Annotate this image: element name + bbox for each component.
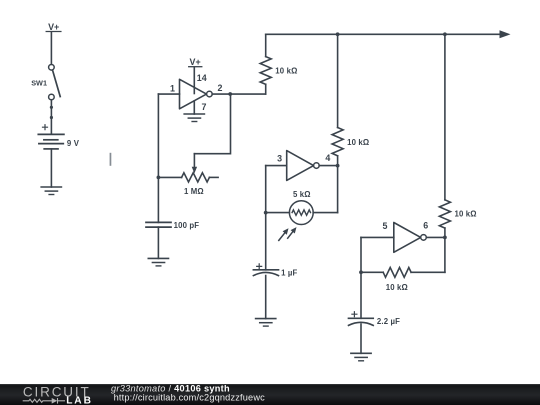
resistor R5 10 kΩ (right) bbox=[439, 34, 476, 237]
ground (U1 pin 7) bbox=[184, 114, 204, 122]
arrowhead output bbox=[500, 30, 511, 38]
ground (C2) bbox=[256, 319, 276, 327]
CircuitLab logo and credits bbox=[0, 384, 540, 405]
svg-text:100 pF: 100 pF bbox=[174, 221, 200, 230]
svg-text:1 MΩ: 1 MΩ bbox=[184, 187, 204, 196]
junction LDR left node bbox=[264, 211, 268, 215]
LDR arrow 1 bbox=[279, 228, 289, 240]
svg-text:4: 4 bbox=[325, 153, 330, 163]
svg-text:3: 3 bbox=[277, 154, 282, 164]
wire battery to ground bbox=[50, 149, 52, 187]
svg-text:14: 14 bbox=[197, 73, 207, 83]
wire U2 output bbox=[319, 165, 337, 167]
switch SW1 bbox=[31, 65, 60, 100]
logo schematic resistor-diode bbox=[23, 398, 65, 404]
junction U3 input node bbox=[359, 270, 363, 274]
junction bbox=[50, 116, 53, 119]
svg-text:6: 6 bbox=[423, 220, 428, 230]
wire U2 input vertical bbox=[265, 166, 267, 270]
svg-text:10 kΩ: 10 kΩ bbox=[347, 138, 369, 147]
wire V+ to switch bbox=[50, 32, 52, 64]
net label V+ (U1 pin 14) bbox=[189, 57, 202, 67]
wire C2 to ground bbox=[265, 276, 267, 319]
junction pot tap bbox=[157, 176, 161, 180]
net label V+ (battery branch) bbox=[46, 22, 61, 32]
svg-text:5 kΩ: 5 kΩ bbox=[293, 190, 311, 199]
svg-text:10 kΩ: 10 kΩ bbox=[275, 66, 297, 75]
svg-text:SW1: SW1 bbox=[31, 79, 47, 88]
svg-text:1 µF: 1 µF bbox=[281, 269, 297, 278]
junction bbox=[50, 106, 53, 109]
junction rail node C bbox=[443, 32, 447, 36]
ground (C3) bbox=[351, 353, 371, 361]
capacitor C3 2.2 µF bbox=[349, 272, 401, 326]
wire C3 to ground bbox=[360, 324, 362, 353]
junction U2 output node bbox=[336, 164, 340, 168]
wire U1 output bbox=[212, 93, 266, 95]
inverter U1 bbox=[180, 79, 213, 109]
LDR arrow 2 bbox=[288, 227, 297, 238]
cursor artifact bbox=[110, 153, 112, 166]
wire switch to battery bbox=[50, 100, 52, 134]
potentiometer R2 1 MΩ bbox=[158, 154, 218, 196]
svg-text:10 kΩ: 10 kΩ bbox=[386, 283, 408, 292]
wire U3 input bbox=[361, 236, 394, 238]
svg-text:7: 7 bbox=[202, 102, 207, 112]
wire U3 output vertical bbox=[444, 237, 446, 272]
junction rail node B bbox=[336, 32, 340, 36]
wire U2 input bbox=[266, 165, 287, 167]
wire wiper from output bbox=[194, 94, 230, 154]
wire U3 input vertical bbox=[360, 237, 362, 272]
ground (C1) bbox=[148, 258, 168, 266]
svg-text:http://circuitlab.com/c2gqndzz: http://circuitlab.com/c2gqndzzfuewc bbox=[114, 393, 266, 403]
inverter U2 bbox=[287, 151, 320, 181]
wire pin 14 bbox=[193, 68, 195, 94]
svg-text:5: 5 bbox=[383, 221, 388, 231]
resistor R6 10 kΩ (feedback) bbox=[361, 268, 445, 292]
wire top output rail bbox=[266, 33, 501, 35]
junction node output U1 bbox=[228, 92, 232, 96]
inverter U3 bbox=[394, 223, 427, 253]
wire pin 7 bbox=[193, 101, 195, 114]
wire left feedback vertical bbox=[157, 94, 159, 222]
wire C1 to ground bbox=[157, 227, 159, 258]
svg-text:V+: V+ bbox=[190, 57, 201, 67]
svg-text:2.2 µF: 2.2 µF bbox=[377, 317, 400, 326]
svg-text:10 kΩ: 10 kΩ bbox=[455, 210, 477, 219]
wire U3 output bbox=[426, 236, 445, 238]
wire U1 input bbox=[158, 93, 179, 95]
svg-text:2: 2 bbox=[218, 83, 223, 93]
battery V1 9 V bbox=[38, 125, 79, 149]
svg-text:LAB: LAB bbox=[66, 396, 93, 405]
resistor R3 10 kΩ (middle) bbox=[332, 34, 369, 165]
svg-text:1: 1 bbox=[170, 83, 175, 93]
ground (battery) bbox=[41, 187, 61, 195]
capacitor C2 1 µF bbox=[253, 264, 297, 278]
capacitor C1 100 pF bbox=[146, 221, 199, 230]
svg-text:9 V: 9 V bbox=[67, 139, 80, 148]
footer bar bbox=[0, 384, 540, 405]
photoresistor R4 5 kΩ bbox=[266, 166, 338, 225]
resistor R1 10 kΩ bbox=[260, 34, 297, 94]
svg-text:V+: V+ bbox=[48, 22, 59, 32]
junction U3 output node bbox=[443, 236, 447, 240]
